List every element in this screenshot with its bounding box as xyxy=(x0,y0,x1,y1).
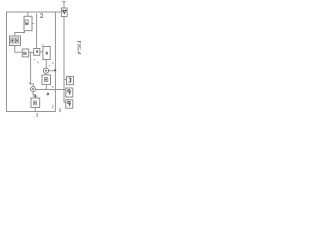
right cell of U2 xyxy=(15,38,18,43)
block E (bottom box) xyxy=(31,98,40,108)
left cell of U2 xyxy=(11,38,14,43)
block U2 (two-cell box) xyxy=(10,36,21,46)
inner cell of U1 xyxy=(25,20,28,25)
wire D bottom stub to bus xyxy=(45,84,47,89)
wire E bottom stub xyxy=(34,108,36,112)
glyph 3 in G xyxy=(69,78,72,82)
numeral below border xyxy=(36,113,37,116)
block G xyxy=(67,77,74,85)
triangle glyph in antenna box xyxy=(63,10,66,13)
glyph in E xyxy=(33,101,36,105)
wire branch to box G xyxy=(64,78,67,80)
numeral near M2 xyxy=(29,83,30,85)
inner square of D xyxy=(44,78,47,82)
numeral above junction xyxy=(52,62,53,64)
numeral below box B xyxy=(34,59,36,60)
dot in right cell xyxy=(16,39,18,41)
wire top border extension to antenna box xyxy=(55,11,61,13)
glyph 9 in H xyxy=(68,90,71,93)
wire M2 down to box E xyxy=(33,91,35,98)
dot in D xyxy=(45,79,47,81)
summer M2 xyxy=(31,87,36,92)
svg-text:FIG.4: FIG.4 xyxy=(76,40,82,54)
wire U2 to box A xyxy=(15,46,22,53)
numeral squiggle at bottom-right of border xyxy=(52,105,53,109)
antenna tip tick xyxy=(62,1,66,3)
block A xyxy=(22,49,29,57)
wire C to mixer M1 xyxy=(45,60,47,68)
dot in M1 xyxy=(45,70,47,72)
numeral under wire xyxy=(47,93,49,95)
numeral below boxes B and C xyxy=(37,62,38,64)
dot in U1 inner cell xyxy=(26,23,28,25)
block H xyxy=(66,88,73,97)
wire M2 to box H (long horizontal) xyxy=(35,89,65,91)
wire antenna feed down xyxy=(64,17,66,103)
wire from A-B junction down to summer M2 xyxy=(31,52,34,86)
glyph in B xyxy=(36,50,38,52)
dot in A glyph xyxy=(24,53,25,54)
antenna switch box U10 xyxy=(61,8,67,17)
tail of 9 in H xyxy=(69,91,70,94)
wire M1 to border junction xyxy=(49,70,56,72)
wire U1 to two-cell box xyxy=(15,31,25,36)
antenna lead above box xyxy=(63,2,65,8)
tail of 9 in I xyxy=(69,103,70,106)
dot in M2 xyxy=(32,88,34,90)
mixer M1 xyxy=(43,68,48,73)
numeral near C top-left xyxy=(42,45,44,47)
wire M1 to box D xyxy=(45,73,47,75)
tick above box E xyxy=(33,95,38,97)
wire stub border to top box xyxy=(27,13,29,17)
numeral near M1 xyxy=(49,65,50,66)
block B xyxy=(34,49,40,56)
block U1 (top box) xyxy=(24,16,32,30)
block I xyxy=(66,100,73,108)
block C xyxy=(43,47,50,60)
wire from top border down to box B xyxy=(36,13,38,48)
junction dot above box E xyxy=(34,95,36,97)
glyph 9 in I xyxy=(68,101,71,104)
glyph in C xyxy=(46,52,48,55)
dot in left cell xyxy=(12,39,14,41)
block D xyxy=(42,75,51,85)
junction dot on border xyxy=(54,69,56,71)
wire B to C xyxy=(40,51,43,53)
enclosure dashed border xyxy=(7,12,56,112)
glyph in A xyxy=(24,52,27,55)
wire stub right of top box xyxy=(32,22,34,24)
wire A to B xyxy=(29,51,34,53)
numeral squiggle below box I xyxy=(60,108,61,112)
numeral right of D xyxy=(52,86,53,88)
dot in E glyph xyxy=(34,102,35,104)
numeral 12 under top border xyxy=(40,14,43,18)
